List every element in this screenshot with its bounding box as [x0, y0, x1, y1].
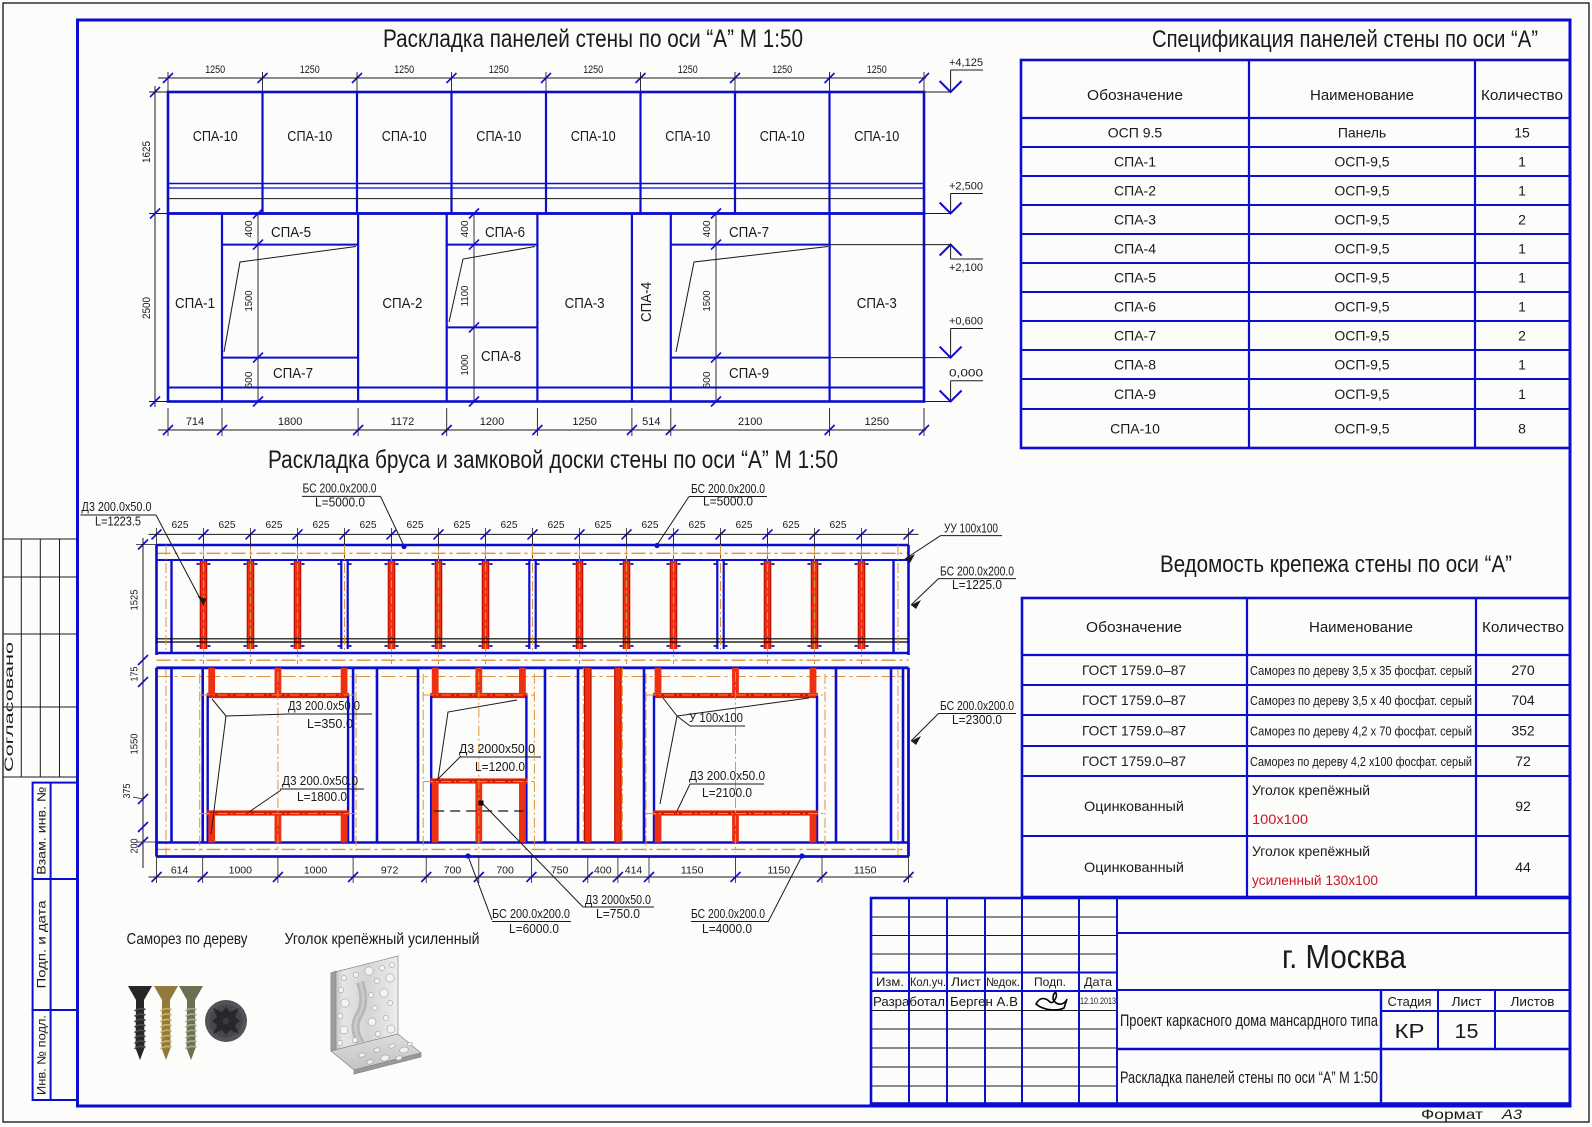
- svg-text:СПА-10: СПА-10: [571, 128, 616, 145]
- label УУ 100х100 with leader: [905, 522, 1002, 564]
- sheet name text: [1120, 1069, 1378, 1087]
- svg-text:44: 44: [1515, 859, 1531, 875]
- label БС 200.0x200.0 L=4000.0 with leader: [691, 853, 805, 936]
- svg-text:+0,600: +0,600: [949, 316, 983, 328]
- svg-text:600: 600: [702, 371, 713, 388]
- svg-text:15: 15: [1514, 125, 1530, 141]
- svg-text:СПА-4: СПА-4: [638, 282, 655, 322]
- svg-text:Саморез по дереву 4,2 х100 фос: Саморез по дереву 4,2 х100 фосфат. серый: [1250, 755, 1472, 769]
- svg-text:625: 625: [360, 519, 377, 531]
- svg-text:L=5000.0: L=5000.0: [315, 495, 365, 509]
- title: Раскладка бруса и замковой доски стены по оси А М 1:50: [268, 446, 838, 474]
- stage/sheet labels: [1388, 994, 1555, 1043]
- svg-text:2: 2: [1518, 212, 1526, 228]
- svg-text:1250: 1250: [865, 416, 889, 428]
- svg-text:Д3 2000х50.0: Д3 2000х50.0: [459, 742, 535, 756]
- wall panel row 2 outline: [168, 214, 924, 402]
- svg-text:1: 1: [1518, 241, 1526, 257]
- svg-text:СПА-10: СПА-10: [287, 128, 332, 145]
- leader diagonal window 2: [437, 700, 517, 780]
- svg-text:СПА-3: СПА-3: [857, 295, 897, 312]
- svg-text:ОСП-9,5: ОСП-9,5: [1334, 154, 1389, 170]
- svg-text:1: 1: [1518, 386, 1526, 402]
- svg-text:72: 72: [1515, 753, 1531, 769]
- svg-text:625: 625: [454, 519, 471, 531]
- top plate beam БС: [157, 544, 909, 547]
- left dimension line 1625 / 2500: [141, 86, 169, 407]
- svg-text:700: 700: [496, 865, 514, 877]
- fastener table: [1022, 598, 1570, 897]
- photo: screw black: [128, 986, 152, 1060]
- elevation mark 0.000: [924, 368, 983, 402]
- svg-text:+2,100: +2,100: [949, 262, 983, 274]
- svg-text:БС 200.0х200.0: БС 200.0х200.0: [492, 907, 570, 921]
- svg-text:750: 750: [551, 865, 569, 877]
- svg-text:+2,500: +2,500: [949, 181, 983, 193]
- stamp box Инв. № подл.: [33, 1010, 77, 1100]
- svg-text:Лист: Лист: [951, 975, 982, 989]
- svg-text:СПА-7: СПА-7: [273, 365, 313, 382]
- svg-text:БС 200.0х200.0: БС 200.0х200.0: [303, 481, 377, 495]
- format label: [1421, 1106, 1522, 1122]
- svg-text:СПА-5: СПА-5: [271, 224, 311, 241]
- svg-text:Оцинкованный: Оцинкованный: [1084, 798, 1184, 814]
- label БС 200.0x200.0 L=5000.0 (right) with leader: [654, 482, 767, 548]
- svg-text:L=1800.0: L=1800.0: [297, 790, 347, 804]
- svg-text:1250: 1250: [300, 64, 320, 76]
- bottom dimension line of panel layout: [158, 408, 929, 436]
- specification table: [1021, 60, 1570, 448]
- svg-text:СПА-7: СПА-7: [729, 224, 769, 241]
- svg-text:БС 200.0х200.0: БС 200.0х200.0: [940, 565, 1014, 579]
- svg-text:Листов: Листов: [1511, 994, 1555, 1009]
- svg-text:714: 714: [186, 416, 204, 428]
- title: Раскладка панелей стены по оси А М 1:50: [383, 25, 803, 53]
- svg-text:1250: 1250: [678, 64, 698, 76]
- svg-text:625: 625: [783, 519, 800, 531]
- svg-text:Инв. № подл.: Инв. № подл.: [35, 1015, 49, 1095]
- label Д3 2000х50.0 L=750.0 with leader: [483, 804, 654, 921]
- svg-text:L=2300.0: L=2300.0: [952, 713, 1002, 727]
- label БС 200.0x200.0 L=5000.0 (left) with leader: [302, 481, 407, 549]
- lower band bottom plates: [157, 843, 909, 857]
- svg-text:Количество: Количество: [1482, 619, 1564, 636]
- svg-text:+4,125: +4,125: [949, 57, 983, 69]
- leader diagonal window 1: [211, 699, 288, 834]
- svg-text:Проект каркасного дома мансард: Проект каркасного дома мансардного типа: [1120, 1012, 1379, 1030]
- svg-text:Дата: Дата: [1084, 975, 1112, 989]
- svg-text:ГОСТ 1759.0–87: ГОСТ 1759.0–87: [1082, 662, 1186, 678]
- svg-text:Формат: Формат: [1421, 1106, 1484, 1122]
- svg-text:1: 1: [1518, 270, 1526, 286]
- title block header texts: [873, 975, 1116, 1009]
- photo: screw head: [205, 1000, 247, 1042]
- svg-text:Раскладка панелей стены по оси: Раскладка панелей стены по оси “А” М 1:5…: [1120, 1069, 1378, 1087]
- svg-text:625: 625: [736, 519, 753, 531]
- svg-text:92: 92: [1515, 798, 1531, 814]
- svg-text:1500: 1500: [702, 290, 713, 311]
- svg-text:L=4000.0: L=4000.0: [702, 922, 752, 936]
- svg-text:СПА-6: СПА-6: [485, 224, 525, 241]
- svg-text:15: 15: [1455, 1021, 1479, 1043]
- svg-text:СПА-10: СПА-10: [760, 128, 805, 145]
- svg-text:СПА-10: СПА-10: [382, 128, 427, 145]
- svg-text:Д3 200.0х50.0: Д3 200.0х50.0: [288, 699, 360, 713]
- city name г. Москва: [1282, 938, 1407, 975]
- svg-text:L=2100.0: L=2100.0: [702, 786, 752, 800]
- svg-text:625: 625: [595, 519, 612, 531]
- svg-text:СПА-9: СПА-9: [1114, 386, 1156, 402]
- svg-text:СПА-9: СПА-9: [729, 365, 769, 382]
- panel row 1 dividers: [263, 92, 830, 214]
- svg-text:СПА-1: СПА-1: [175, 295, 215, 312]
- svg-text:625: 625: [172, 519, 189, 531]
- upper band studs (red/blue): [197, 534, 869, 649]
- svg-text:270: 270: [1511, 662, 1535, 678]
- photo: screw olive: [179, 986, 203, 1060]
- svg-text:400: 400: [244, 220, 255, 237]
- window opening 1 framing (red headers): [200, 668, 356, 853]
- svg-text:Оцинкованный: Оцинкованный: [1084, 859, 1184, 875]
- svg-text:Лист: Лист: [1452, 994, 1482, 1009]
- svg-text:БС 200.0х200.0: БС 200.0х200.0: [940, 699, 1014, 713]
- svg-text:КР: КР: [1395, 1021, 1425, 1043]
- svg-text:1250: 1250: [867, 64, 887, 76]
- window opening 3 framing (red headers): [646, 668, 825, 853]
- label БС 200.0x200.0 L=6000.0 with leader: [465, 853, 571, 936]
- svg-text:1550: 1550: [130, 733, 141, 754]
- elevation mark +4.125: [924, 57, 983, 92]
- svg-text:ОСП-9,5: ОСП-9,5: [1334, 386, 1389, 402]
- window opening 2 framing (red headers): [423, 668, 534, 853]
- wall panel row 1 outline: [168, 92, 924, 214]
- dashed line in window 2: [434, 810, 523, 812]
- svg-text:L=1200.0: L=1200.0: [475, 760, 525, 774]
- svg-text:L=6000.0: L=6000.0: [509, 922, 559, 936]
- svg-text:Стадия: Стадия: [1388, 994, 1432, 1009]
- panel row separation lines: [168, 184, 924, 199]
- leader diagonal window 3: [660, 698, 809, 804]
- svg-text:1150: 1150: [768, 865, 791, 877]
- svg-text:СПА-10: СПА-10: [1110, 421, 1160, 437]
- label Д3 200.0x50.0 L=2100.0: [677, 769, 765, 811]
- window diagonal break line section 3: [676, 247, 828, 353]
- door jamb red studs pair: [583, 668, 622, 843]
- svg-text:СПА-3: СПА-3: [1114, 212, 1156, 228]
- stamp box Подп. и дата: [33, 879, 77, 1010]
- photo: angle bracket: [331, 956, 421, 1074]
- svg-text:1: 1: [1518, 183, 1526, 199]
- svg-text:625: 625: [219, 519, 236, 531]
- svg-text:Кол.уч.: Кол.уч.: [910, 975, 946, 989]
- svg-text:ОСП-9,5: ОСП-9,5: [1334, 299, 1389, 315]
- svg-text:А3: А3: [1501, 1106, 1522, 1122]
- label Д3 2000х50.0 L=1200.0: [459, 742, 541, 774]
- svg-text:Уголок крепёжный: Уголок крепёжный: [1252, 782, 1370, 798]
- title block frame: [871, 898, 1570, 1104]
- svg-text:1: 1: [1518, 154, 1526, 170]
- svg-text:Обозначение: Обозначение: [1086, 619, 1182, 636]
- svg-text:ОСП-9,5: ОСП-9,5: [1334, 183, 1389, 199]
- svg-text:Саморез по дереву 3,5 х 35 фос: Саморез по дереву 3,5 х 35 фосфат. серый: [1250, 664, 1472, 678]
- svg-text:1250: 1250: [489, 64, 509, 76]
- label БС 200.0x200.0 L=2300.0 with leader: [911, 699, 1016, 745]
- svg-text:Уголок крепёжный: Уголок крепёжный: [1252, 843, 1370, 859]
- svg-text:200: 200: [130, 838, 141, 853]
- title: Спецификация панелей стены по оси А: [1152, 26, 1538, 53]
- svg-text:ОСП 9.5: ОСП 9.5: [1108, 125, 1163, 141]
- svg-text:1000: 1000: [229, 865, 253, 877]
- svg-text:СПА-6: СПА-6: [1114, 299, 1156, 315]
- lock board double line: [157, 639, 909, 642]
- axis dash-dot line upper: [157, 552, 909, 554]
- svg-text:972: 972: [381, 865, 399, 877]
- svg-text:1172: 1172: [391, 416, 415, 428]
- project name text: [1120, 1012, 1379, 1030]
- svg-text:1000: 1000: [460, 354, 471, 375]
- svg-text:СПА-3: СПА-3: [565, 295, 605, 312]
- svg-text:Спецификация панелей стены по: Спецификация панелей стены по оси “А”: [1152, 26, 1538, 53]
- signature scribble: [1036, 993, 1067, 1010]
- svg-text:1: 1: [1518, 299, 1526, 315]
- dimension row 625 x16: [149, 519, 919, 545]
- title: Ведомость крепежа стены по оси А: [1160, 551, 1512, 578]
- svg-text:2: 2: [1518, 328, 1526, 344]
- svg-text:L=350.0: L=350.0: [307, 717, 353, 731]
- svg-text:1250: 1250: [772, 64, 792, 76]
- svg-text:СПА-8: СПА-8: [1114, 357, 1156, 373]
- elevation mark +0.600: [830, 316, 983, 358]
- svg-text:400: 400: [594, 865, 612, 877]
- svg-text:375: 375: [122, 783, 133, 798]
- svg-text:СПА-10: СПА-10: [476, 128, 521, 145]
- svg-text:СПА-2: СПА-2: [382, 295, 422, 312]
- svg-text:Д3 200.0х50.0: Д3 200.0х50.0: [689, 769, 765, 783]
- label Д3 200.0x50.0 L=1800.0: [249, 774, 364, 812]
- upper band side members: [157, 545, 909, 655]
- svg-text:625: 625: [501, 519, 518, 531]
- svg-text:Саморез по дереву: Саморез по дереву: [127, 931, 248, 948]
- svg-text:L=750.0: L=750.0: [596, 907, 640, 921]
- svg-text:Наименование: Наименование: [1310, 87, 1414, 104]
- label Д3 200.0x50.0 L=350.0: [288, 699, 372, 731]
- svg-text:У 100х100: У 100х100: [689, 711, 743, 725]
- svg-text:СПА-4: СПА-4: [1114, 241, 1156, 257]
- window diagonal break line section 2: [449, 247, 535, 323]
- panel labels СПА-10 x8: [193, 128, 900, 145]
- svg-text:625: 625: [407, 519, 424, 531]
- svg-text:Саморез по дереву 3,5 х 40 фос: Саморез по дереву 3,5 х 40 фосфат. серый: [1250, 694, 1472, 708]
- svg-text:Подп. и дата: Подп. и дата: [35, 900, 49, 988]
- bottom dimension line of timber layout: [149, 856, 914, 883]
- svg-text:№док.: №док.: [986, 975, 1020, 989]
- svg-text:625: 625: [266, 519, 283, 531]
- svg-text:СПА-2: СПА-2: [1114, 183, 1156, 199]
- panel row 2 dividers: [222, 214, 830, 402]
- svg-text:ОСП-9,5: ОСП-9,5: [1334, 421, 1389, 437]
- svg-text:Разработал: Разработал: [873, 995, 945, 1009]
- svg-text:СПА-5: СПА-5: [1114, 270, 1156, 286]
- svg-text:1500: 1500: [244, 290, 255, 311]
- svg-text:L=1223.5: L=1223.5: [95, 515, 141, 529]
- svg-text:Панель: Панель: [1338, 125, 1386, 141]
- svg-text:1800: 1800: [278, 416, 302, 428]
- elevation mark +2.500: [924, 181, 983, 214]
- svg-text:Взам. инв. №: Взам. инв. №: [35, 787, 49, 875]
- svg-text:625: 625: [689, 519, 706, 531]
- section 1 inner dimension 400/1500/600: [244, 209, 263, 407]
- svg-text:Раскладка бруса и замковой дос: Раскладка бруса и замковой доски стены п…: [268, 446, 838, 474]
- svg-text:Берген А.В: Берген А.В: [950, 995, 1018, 1009]
- svg-text:Ведомость крепежа стены по оси: Ведомость крепежа стены по оси “А”: [1160, 551, 1512, 578]
- svg-text:БС 200.0х200.0: БС 200.0х200.0: [691, 907, 765, 921]
- svg-text:12.10.2013: 12.10.2013: [1080, 996, 1116, 1007]
- svg-text:УУ 100х100: УУ 100х100: [944, 522, 998, 536]
- label У 100х100: [689, 711, 745, 726]
- svg-text:Обозначение: Обозначение: [1087, 87, 1183, 104]
- svg-text:1200: 1200: [480, 416, 504, 428]
- svg-text:1525: 1525: [130, 589, 141, 610]
- upper band inner rail: [157, 559, 909, 561]
- svg-text:ОСП-9,5: ОСП-9,5: [1334, 328, 1389, 344]
- svg-text:г. Москва: г. Москва: [1282, 938, 1407, 975]
- svg-text:400: 400: [460, 220, 471, 237]
- photo: screw brass: [154, 986, 178, 1060]
- svg-text:352: 352: [1511, 723, 1535, 739]
- svg-text:1: 1: [1518, 357, 1526, 373]
- svg-text:Д3 200.0х50.0: Д3 200.0х50.0: [282, 774, 358, 788]
- svg-text:ГОСТ 1759.0–87: ГОСТ 1759.0–87: [1082, 692, 1186, 708]
- approval table (Согласовано): [4, 539, 78, 777]
- svg-text:СПА-10: СПА-10: [854, 128, 899, 145]
- row 2 horizontal panel edges: [168, 245, 924, 388]
- svg-text:ГОСТ 1759.0–87: ГОСТ 1759.0–87: [1082, 753, 1186, 769]
- svg-text:1100: 1100: [460, 285, 471, 306]
- svg-text:1250: 1250: [394, 64, 414, 76]
- svg-text:625: 625: [830, 519, 847, 531]
- orange vertical grid lines upper band: [166, 545, 898, 857]
- svg-text:414: 414: [625, 865, 643, 877]
- svg-text:Д3 2000х50.0: Д3 2000х50.0: [585, 893, 651, 907]
- svg-text:L=5000.0: L=5000.0: [703, 495, 753, 509]
- label Саморез по дереву: [127, 931, 248, 948]
- svg-text:L=1225.0: L=1225.0: [952, 578, 1002, 592]
- svg-text:0,000: 0,000: [949, 368, 983, 380]
- svg-text:625: 625: [548, 519, 565, 531]
- svg-text:СПА-8: СПА-8: [481, 348, 521, 365]
- svg-text:СПА-1: СПА-1: [1114, 154, 1156, 170]
- svg-text:1250: 1250: [572, 416, 596, 428]
- svg-text:Изм.: Изм.: [876, 975, 904, 989]
- svg-text:1000: 1000: [304, 865, 328, 877]
- section 3 inner dimension 400/1500/600: [702, 209, 721, 407]
- svg-text:700: 700: [444, 865, 462, 877]
- label Д3 200.0x50.0 L=1223.5 with leader: [81, 500, 207, 605]
- svg-text:Саморез по дереву 4,2 х 70 фос: Саморез по дереву 4,2 х 70 фосфат. серый: [1250, 725, 1472, 739]
- upper band bottom rail: [157, 652, 909, 655]
- svg-text:Раскладка панелей стены по оси: Раскладка панелей стены по оси “А” М 1:5…: [383, 25, 803, 53]
- label БС 200.0x200.0 L=1225.0 with leader: [911, 565, 1016, 610]
- svg-text:100х100: 100х100: [1252, 811, 1308, 827]
- row 2 panel labels: [175, 224, 897, 382]
- svg-text:ОСП-9,5: ОСП-9,5: [1334, 357, 1389, 373]
- svg-text:СПА-10: СПА-10: [665, 128, 710, 145]
- top dimension line 1250 x8: [158, 64, 929, 96]
- svg-text:ОСП-9,5: ОСП-9,5: [1334, 212, 1389, 228]
- svg-text:Количество: Количество: [1481, 87, 1563, 104]
- svg-text:8: 8: [1518, 421, 1526, 437]
- section 2 inner dimension 400/1100/1000: [460, 209, 479, 407]
- svg-text:СПА-10: СПА-10: [193, 128, 238, 145]
- label Уголок крепёжный усиленный: [285, 931, 480, 948]
- title block right part: [1117, 933, 1570, 1104]
- axis dash-dot line lower: [157, 677, 909, 850]
- svg-text:Согласовано: Согласовано: [4, 642, 16, 772]
- svg-text:Наименование: Наименование: [1309, 619, 1413, 636]
- lower band top plate: [157, 666, 909, 669]
- svg-text:ГОСТ 1759.0–87: ГОСТ 1759.0–87: [1082, 723, 1186, 739]
- svg-text:1625: 1625: [141, 141, 153, 163]
- svg-text:625: 625: [642, 519, 659, 531]
- svg-text:Д3 200.0х50.0: Д3 200.0х50.0: [82, 500, 152, 514]
- svg-text:ОСП-9,5: ОСП-9,5: [1334, 241, 1389, 257]
- svg-text:1150: 1150: [681, 865, 704, 877]
- svg-text:Уголок крепёжный усиленный: Уголок крепёжный усиленный: [285, 931, 480, 948]
- svg-text:625: 625: [313, 519, 330, 531]
- svg-text:2100: 2100: [738, 416, 762, 428]
- svg-text:400: 400: [702, 220, 713, 237]
- svg-text:усиленный 130х100: усиленный 130х100: [1252, 872, 1378, 888]
- axis dash-dot line between bands: [157, 659, 909, 661]
- svg-text:ОСП-9,5: ОСП-9,5: [1334, 270, 1389, 286]
- stamp box Взам. инв. №: [33, 783, 77, 879]
- elevation mark +2.100: [830, 245, 983, 274]
- svg-text:600: 600: [244, 371, 255, 388]
- svg-text:1150: 1150: [854, 865, 877, 877]
- left dimension column of timber layout: [122, 538, 158, 868]
- svg-text:СПА-7: СПА-7: [1114, 328, 1156, 344]
- svg-text:175: 175: [130, 666, 141, 681]
- leader dot for Д3 750: [479, 801, 484, 806]
- svg-text:2500: 2500: [141, 297, 153, 319]
- svg-text:614: 614: [171, 865, 189, 877]
- svg-text:Подп.: Подп.: [1034, 975, 1066, 989]
- svg-text:514: 514: [642, 416, 660, 428]
- svg-text:1250: 1250: [205, 64, 225, 76]
- lower band side and interior blue studs: [157, 668, 909, 857]
- svg-text:1250: 1250: [583, 64, 603, 76]
- svg-text:704: 704: [1511, 692, 1535, 708]
- window diagonal break line section 1: [224, 247, 356, 353]
